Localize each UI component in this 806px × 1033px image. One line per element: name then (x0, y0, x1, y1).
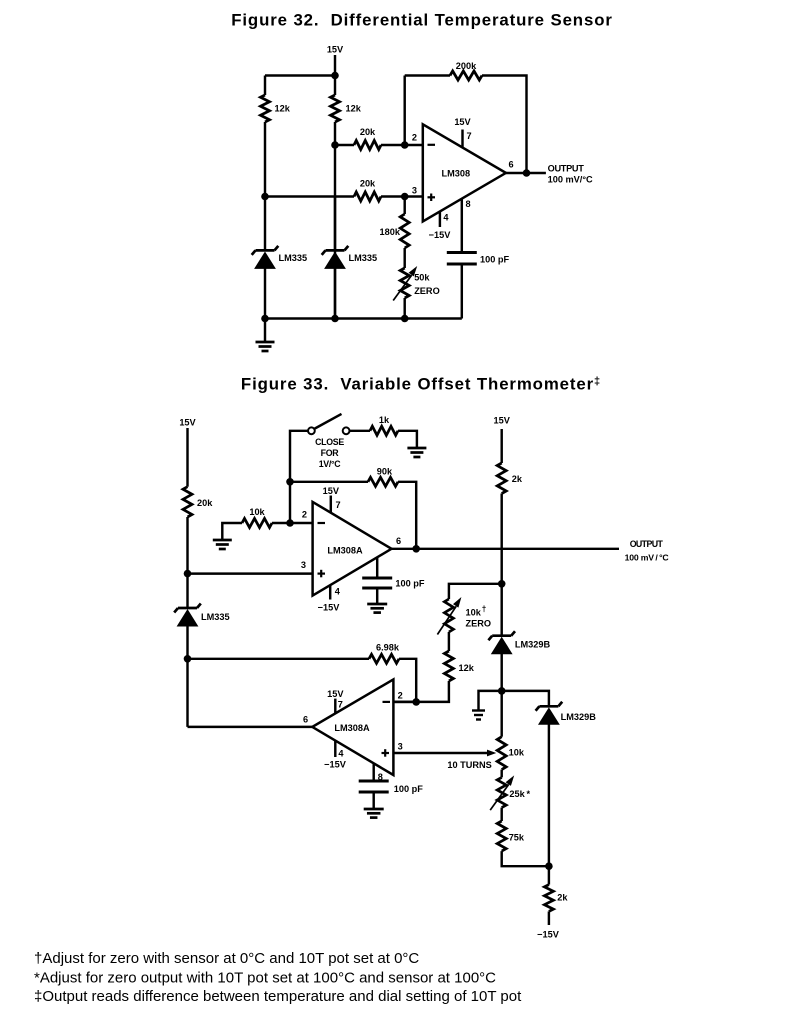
resistor 75k (497, 821, 506, 851)
ground fig32 (256, 319, 275, 352)
resistor 2k upper (497, 463, 506, 494)
wire 50k lower lead (403, 298, 405, 319)
value label 10k dagger (466, 605, 487, 618)
wire pin3 row (U3) (393, 752, 487, 754)
svg-text:2: 2 (412, 133, 417, 143)
wire 15V lead (334, 55, 336, 76)
label 100 mV/degC (fig32) (548, 175, 593, 185)
resistor 12k (fig33) (444, 651, 453, 681)
pin label 7 (U1) (467, 131, 472, 141)
pin label 6 (U1) (508, 160, 513, 170)
wire feedback top right (482, 76, 527, 174)
label OUTPUT (fig32) (548, 163, 585, 173)
value label 10k (U2 input) (249, 507, 265, 517)
resistor 20k (fig33) (183, 487, 192, 517)
wire pin7 stub (U2) (330, 496, 332, 513)
wiper arrow 10 turns pot (487, 750, 496, 757)
svg-text:LM329B: LM329B (515, 639, 551, 649)
label OUTPUT (fig33) (630, 539, 664, 549)
svg-text:LM329B: LM329B (561, 712, 597, 722)
junction output node (fig33) (412, 545, 420, 553)
resistor 10k (U2 input) (242, 519, 272, 528)
power 15V label (U2 pin7) (323, 486, 340, 496)
wire 10k pot to 12k (448, 632, 450, 651)
value label 12k (fig33) (459, 663, 475, 673)
junction LM335 anode node (184, 655, 192, 663)
wire 10k to pin2 node (272, 522, 290, 524)
wire node to 10k pot (500, 691, 502, 737)
pin label 8 (U1) (466, 199, 471, 209)
svg-text:Figure 32. Differential Tempe: Figure 32. Differential Temperature Sens… (231, 11, 613, 30)
svg-text:3: 3 (301, 560, 306, 570)
power 15V label (fig33 right) (494, 416, 511, 426)
svg-text:LM335: LM335 (279, 253, 308, 263)
ground U2 cap (367, 604, 387, 613)
wire 10k pot to 25k (500, 770, 502, 778)
sensor LM335 (fig33) (174, 574, 201, 659)
pin label 4 (U1) (443, 213, 449, 223)
pin label 3 (U1) (412, 186, 417, 196)
figure 33 title (241, 374, 601, 393)
svg-text:ZERO: ZERO (466, 618, 492, 628)
svg-text:12k: 12k (459, 663, 475, 673)
wire 20k to pin3 node (186, 517, 188, 574)
resistor 2k lower (544, 885, 553, 912)
pin label 6 (U2) (396, 536, 401, 546)
value label 10k (10 turns) (509, 748, 525, 758)
op-amp U3 minus mark (383, 701, 391, 703)
wire LM329B node to ground (479, 691, 502, 711)
svg-text:100 mV/°C: 100 mV/°C (548, 175, 593, 185)
pin label 7 (U3) (338, 699, 343, 709)
wire U3 output run (188, 726, 313, 728)
wire 12k to pin2 row (U3) (393, 681, 449, 702)
value label 20k lower (360, 179, 376, 189)
wire zero-chain tap left (449, 584, 502, 599)
wire pin7 stub (U1) (461, 130, 463, 148)
potentiometer 10k ZERO (fig33) (437, 597, 461, 635)
junction LM329B node (498, 687, 506, 695)
svg-text:6: 6 (303, 715, 308, 725)
svg-text:−15V: −15V (537, 930, 560, 940)
svg-text:LM308: LM308 (441, 168, 470, 178)
svg-text:20k: 20k (197, 498, 213, 508)
wire pin3 row right (381, 195, 423, 197)
svg-text:100 pF: 100 pF (395, 578, 424, 588)
part label LM335 (fig33) (201, 612, 230, 622)
sensor LM335 right (322, 197, 349, 319)
capacitor 100 pF (fig32) (447, 253, 477, 265)
svg-text:15V: 15V (323, 486, 340, 496)
wire output row (fig33) (392, 548, 620, 550)
svg-text:†Adjust for zero with sensor a: †Adjust for zero with sensor at 0°C and … (34, 950, 419, 967)
svg-text:15V: 15V (327, 689, 344, 699)
pin label 6 (U3) (303, 715, 308, 725)
svg-text:*Adjust for zero output with 1: *Adjust for zero output with 10T pot set… (34, 970, 496, 987)
pin label 7 (U2) (336, 500, 341, 510)
svg-text:100 pF: 100 pF (394, 784, 423, 794)
wire pin2 row (U2) (290, 522, 313, 524)
junction pin3 row left (261, 193, 269, 201)
part label LM308A (U2) (327, 545, 363, 555)
capacitor 100 pF (U3) (359, 781, 389, 792)
label CLOSE (315, 437, 344, 447)
label 100 mV/degC (fig33) (625, 552, 670, 562)
svg-text:LM308A: LM308A (327, 545, 363, 555)
wire 75k to -15V node (502, 851, 549, 866)
wire 90k row left (290, 481, 368, 483)
resistor 200k feedback (450, 71, 482, 80)
wire pin4 stub (U2) (329, 585, 331, 600)
value label 100 pF (fig32) (480, 255, 509, 265)
capacitor 100 pF (U2) (362, 578, 392, 588)
resistor 12k left (261, 95, 270, 122)
ground LM329B node (472, 711, 485, 720)
label 1V/degC (319, 459, 342, 469)
svg-text:Figure 33. Variable Offset Th: Figure 33. Variable Offset Thermometer‡ (241, 374, 601, 393)
op-amp U2 minus mark (318, 522, 326, 524)
svg-text:6: 6 (396, 536, 401, 546)
power -15V label (U2 pin4) (318, 602, 341, 612)
op-amp U1 plus input mark (428, 194, 436, 202)
svg-text:2k: 2k (512, 474, 523, 484)
footnote asterisk (34, 970, 496, 987)
potentiometer 25k (490, 775, 514, 810)
value label 2k lower (557, 893, 568, 903)
svg-text:20k: 20k (360, 127, 376, 137)
wire 90k tap down (289, 482, 291, 523)
value label 100 pF (U2) (395, 578, 424, 588)
part label LM308A (U3) (334, 723, 370, 733)
wire 2k down to LM329B (500, 494, 502, 636)
wire pin7 stub (U3) (334, 699, 336, 714)
svg-text:OUTPUT: OUTPUT (548, 163, 585, 173)
footnote double-dagger (34, 988, 522, 1005)
svg-text:FOR: FOR (321, 448, 340, 458)
junction top rail (331, 72, 339, 80)
svg-text:7: 7 (338, 699, 343, 709)
wire cap to ground (U2) (376, 588, 378, 604)
svg-text:1k: 1k (379, 415, 390, 425)
pin label 2 (U2) (302, 510, 307, 520)
svg-text:100 pF: 100 pF (480, 255, 509, 265)
resistor 12k right (331, 95, 340, 122)
value label 2k upper (512, 474, 523, 484)
part label LM335 left (279, 253, 308, 263)
value label 90k (377, 467, 393, 477)
potentiometer 10k 10 TURNS (497, 737, 506, 770)
junction pin3 node (fig33) (184, 570, 192, 578)
svg-text:15V: 15V (494, 416, 511, 426)
svg-text:12k: 12k (275, 104, 291, 114)
wire ground to 10k (222, 523, 242, 540)
part label LM308 (441, 168, 470, 178)
svg-text:LM335: LM335 (349, 253, 378, 263)
wire 1k to ground (398, 431, 417, 448)
svg-text:15V: 15V (454, 117, 471, 127)
svg-text:25k *: 25k * (509, 789, 530, 799)
svg-text:7: 7 (336, 500, 341, 510)
pin label 4 (U3) (338, 749, 344, 759)
svg-text:2: 2 (302, 510, 307, 520)
value label 50k (414, 273, 430, 283)
svg-text:20k: 20k (360, 179, 376, 189)
op-amp U1 LM308 (423, 124, 506, 221)
wire 6.98k to pin2 node (U3) (399, 659, 416, 702)
op-amp U2 plus mark (318, 570, 326, 578)
junction 90k tap (286, 478, 294, 486)
value label 180k (380, 227, 401, 237)
value label 1k (379, 415, 390, 425)
wire pin8 stub (U3) (372, 763, 374, 781)
resistor 6.98k (369, 654, 399, 663)
wire left branch upper (264, 76, 266, 96)
svg-text:3: 3 (412, 186, 417, 196)
op-amp U3 plus mark (382, 749, 390, 757)
svg-text:4: 4 (443, 213, 449, 223)
svg-text:OUTPUT: OUTPUT (630, 539, 664, 549)
value label 20k upper (360, 127, 376, 137)
power 15V label (fig32 top) (327, 45, 344, 55)
wire 15V lead right (500, 429, 502, 463)
junction output node (fig32) (523, 169, 531, 177)
pin label 2 (U1) (412, 133, 417, 143)
wire output (fig32) (506, 172, 546, 174)
value label 12k right (346, 104, 362, 114)
svg-text:180k: 180k (380, 227, 401, 237)
wire mid branch to node (334, 122, 336, 145)
svg-text:−15V: −15V (318, 602, 341, 612)
label ZERO (fig32) (414, 286, 440, 296)
value label 25k star (509, 789, 530, 799)
svg-text:2: 2 (398, 691, 403, 701)
svg-text:6.98k: 6.98k (376, 642, 400, 652)
wire bottom rail (265, 317, 462, 319)
junction -15V node (545, 862, 553, 870)
ground 1k (407, 448, 426, 457)
pin label 2 (U3) (398, 691, 403, 701)
value label 20k (fig33) (197, 498, 213, 508)
value label 6.98k (376, 642, 400, 652)
svg-text:15V: 15V (327, 45, 344, 55)
part label LM335 right (349, 253, 378, 263)
wire feedback riser (403, 76, 405, 146)
svg-text:8: 8 (466, 199, 471, 209)
svg-text:3: 3 (398, 742, 403, 752)
power 15V label (fig33 left) (179, 418, 196, 428)
wire cap riser (461, 264, 463, 319)
svg-text:200k: 200k (456, 61, 477, 71)
svg-text:−15V: −15V (429, 230, 452, 240)
diode LM329B lower (536, 702, 563, 866)
wire pin4 stub (U1) (439, 211, 441, 227)
value label 12k left (275, 104, 291, 114)
wire mid branch down to bottom rail (334, 145, 336, 319)
resistor 180k (400, 214, 409, 248)
junction pin2 node (331, 141, 339, 149)
diode LM329B upper (488, 631, 515, 691)
wire switch to 1k (350, 430, 371, 432)
wire pin8 stub (461, 199, 463, 253)
svg-text:2k: 2k (557, 893, 568, 903)
svg-text:1V/°C: 1V/°C (319, 459, 342, 469)
svg-text:90k: 90k (377, 467, 393, 477)
svg-text:10k: 10k (249, 507, 265, 517)
power -15V label (fig33 bottom) (537, 930, 560, 940)
svg-text:7: 7 (467, 131, 472, 141)
resistor 20k lower (354, 192, 381, 201)
value label 200k (456, 61, 477, 71)
power -15V label (U1 pin4) (429, 230, 452, 240)
value label 75k (509, 832, 525, 842)
wire cap to ground (U3) (372, 792, 374, 809)
wire 6.98k row left (188, 658, 370, 660)
wire 15V lead left (186, 428, 188, 487)
wire mid branch upper (334, 76, 336, 96)
svg-text:CLOSE: CLOSE (315, 437, 344, 447)
svg-text:4: 4 (338, 749, 344, 759)
power 15V label (U1 pin7) (454, 117, 471, 127)
footnote dagger (34, 950, 419, 967)
sensor LM335 left (252, 197, 279, 319)
junction zero-chain tap (498, 580, 506, 588)
svg-text:†: † (482, 605, 487, 614)
wire LM329B node right (502, 691, 549, 706)
op-amp U1 minus input mark (428, 144, 436, 146)
value label 100 pF (U3) (394, 784, 423, 794)
wire 180k to 50k (403, 248, 405, 268)
wire 180k upper lead (403, 197, 405, 215)
switch pole wire (290, 431, 308, 482)
svg-text:−15V: −15V (324, 760, 347, 770)
svg-text:LM308A: LM308A (334, 723, 370, 733)
svg-text:ZERO: ZERO (414, 286, 440, 296)
pin label 8 (U3) (378, 772, 383, 782)
svg-text:10k: 10k (466, 608, 482, 618)
ground 10k input (213, 540, 232, 549)
svg-text:10k: 10k (509, 748, 525, 758)
wire pin3 row left (265, 195, 354, 197)
junction bottom rail right (401, 315, 409, 323)
junction pin2 node (U2) (286, 519, 294, 527)
wire 25k to 75k (500, 808, 502, 821)
svg-text:50k: 50k (414, 273, 430, 283)
wire pin2 row right (381, 144, 423, 146)
op-amp U3 LM308A (312, 679, 393, 775)
svg-text:10 TURNS: 10 TURNS (447, 760, 491, 770)
resistor 1k (370, 426, 398, 435)
pin label 4 (U2) (335, 586, 341, 596)
wire -15V node to 2k (548, 866, 550, 884)
wire top rail (265, 74, 335, 76)
junction feedback tap (401, 141, 409, 149)
wire anode node down (186, 659, 188, 727)
svg-text:4: 4 (335, 586, 341, 596)
part label LM329B upper (515, 639, 551, 649)
svg-text:75k: 75k (509, 832, 525, 842)
wire U2 comp cap stub (376, 557, 378, 578)
resistor 90k (368, 477, 398, 486)
svg-text:12k: 12k (346, 104, 362, 114)
svg-text:100 mV / °C: 100 mV / °C (625, 552, 670, 562)
resistor 20k upper (354, 141, 381, 150)
op-amp U2 LM308A (313, 502, 392, 596)
svg-text:15V: 15V (179, 418, 196, 428)
potentiometer 50k ZERO (393, 266, 417, 301)
figure 32 title (231, 11, 613, 30)
wire 90k to output node (398, 482, 416, 549)
junction bottom rail mid (331, 315, 339, 323)
pin label 3 (U3) (398, 742, 403, 752)
wire left branch to pin3 row (264, 122, 266, 197)
svg-text:6: 6 (508, 160, 513, 170)
wire pin2 row (U3) (393, 701, 416, 703)
wire pin3 row (U2) (188, 572, 313, 574)
wire pin4 stub (U3) (334, 741, 336, 758)
wire 2k to -15V (548, 911, 550, 925)
junction pin2 node (U3) (412, 698, 420, 706)
power 15V label (U3 pin7) (327, 689, 344, 699)
label ZERO (fig33) (466, 618, 492, 628)
wire pin2 row left (335, 144, 354, 146)
part label LM329B lower (561, 712, 597, 722)
svg-text:‡Output reads difference betwe: ‡Output reads difference between tempera… (34, 988, 522, 1005)
label FOR (321, 448, 340, 458)
junction pin3 node (401, 193, 409, 201)
junction bottom rail left (261, 315, 269, 323)
switch (CLOSE FOR 1V/C) (308, 414, 350, 434)
power -15V label (U3 pin4) (324, 760, 347, 770)
svg-text:LM335: LM335 (201, 612, 230, 622)
wire feedback top left (405, 74, 450, 76)
ground U3 cap (364, 809, 384, 818)
pin label 3 (U2) (301, 560, 306, 570)
label 10 TURNS (447, 760, 491, 770)
